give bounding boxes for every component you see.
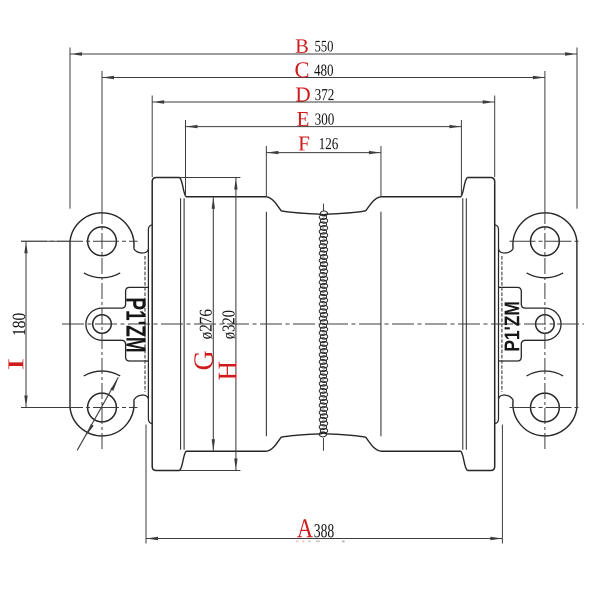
watermark right [505,302,520,350]
label dia320 [222,311,235,339]
dimension E 300 [186,120,462,196]
left mounting bracket [70,213,152,436]
tread surface top [186,196,461,198]
label dia276 [200,310,213,339]
dimension B 550 [70,48,577,209]
collar profile top [266,197,381,215]
roller right flange inner edge lines [463,198,467,450]
dimension G dia276 [212,197,215,451]
label 126 [320,138,338,149]
label 388 [314,524,333,537]
dimension A 388 [146,425,502,544]
label 372 [315,89,333,100]
collar shoulder edge lines [266,212,381,436]
label 550 [315,41,333,52]
label 300 [315,113,334,124]
dimension H dia320 [180,178,241,471]
faint marks under A dimension [296,541,345,543]
right top hole centerline [510,240,582,242]
roller left flange chamfer bottom [180,451,186,470]
roller left flange inner edge lines [181,198,185,450]
label A [297,519,313,537]
right hole column centerline [544,71,546,208]
right mounting bracket [495,213,577,436]
tread surface bottom [186,450,461,452]
dimension I 180 [21,241,71,407]
label H [219,362,237,380]
diameter leader on bottom-left lobe [77,377,118,450]
left top hole centerline [21,240,138,242]
left bottom hole centerline [21,407,138,409]
collar profile bottom [266,433,381,451]
label B [296,39,308,52]
label 180 [13,313,26,334]
dimension D 372 [152,96,495,178]
dimension C 480 [102,76,545,79]
label D [296,88,310,102]
roller right flange outline [467,178,494,471]
left hole column centerline [101,71,103,208]
label I [8,359,23,369]
label 480 [314,65,333,76]
roller left flange chamfer top [180,178,186,197]
label G [194,351,213,369]
label E [297,112,308,126]
weld seam coil [319,211,328,437]
dimension F 126 [266,146,381,196]
label C [295,62,308,77]
watermark left [126,299,145,352]
roller right flange chamfer top [461,178,467,197]
roller left flange outline [152,178,179,471]
roller right flange chamfer bottom [461,451,467,470]
label F [299,137,309,151]
main horizontal centerline [62,323,584,325]
right bottom hole centerline [510,407,582,409]
weld centerline ticks [322,204,324,451]
